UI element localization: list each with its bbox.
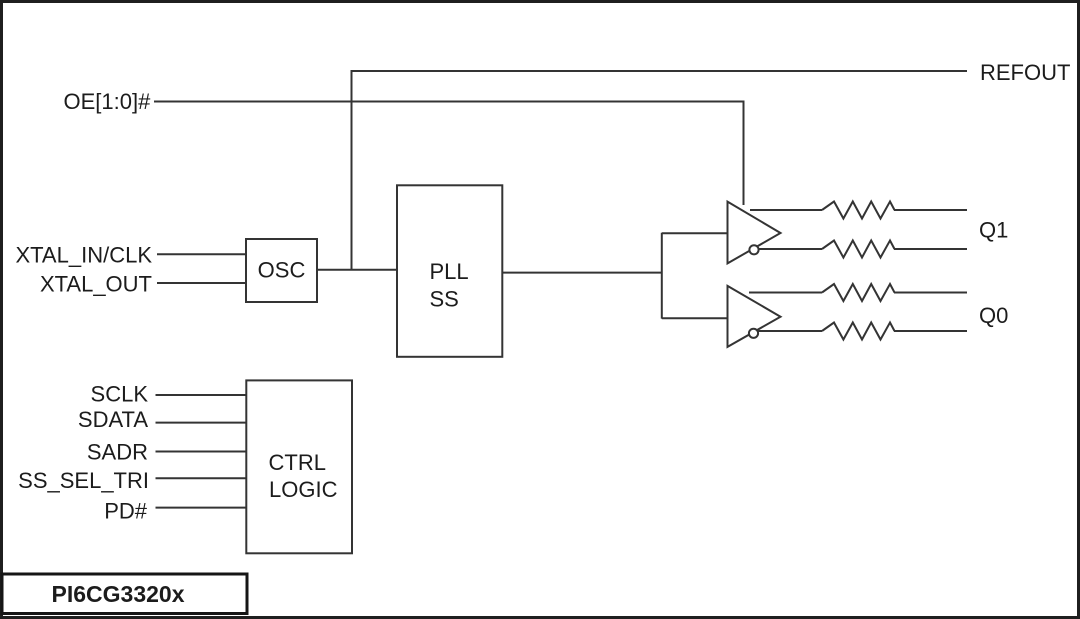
- svg-text:PLL: PLL: [430, 259, 469, 284]
- svg-text:LOGIC: LOGIC: [269, 477, 338, 502]
- svg-text:OSC: OSC: [258, 257, 306, 282]
- svg-text:SDATA: SDATA: [78, 407, 148, 432]
- svg-text:Q1: Q1: [979, 218, 1008, 243]
- svg-text:OE[1:0]#: OE[1:0]#: [64, 89, 152, 114]
- svg-text:SADR: SADR: [87, 440, 148, 465]
- svg-text:PI6CG3320x: PI6CG3320x: [52, 581, 185, 607]
- svg-text:XTAL_OUT: XTAL_OUT: [40, 271, 152, 296]
- svg-text:SS: SS: [430, 287, 459, 312]
- svg-text:SCLK: SCLK: [91, 382, 149, 407]
- svg-text:REFOUT: REFOUT: [980, 60, 1070, 85]
- svg-text:PD#: PD#: [104, 498, 148, 523]
- svg-text:CTRL: CTRL: [269, 450, 326, 475]
- svg-text:SS_SEL_TRI: SS_SEL_TRI: [18, 468, 149, 493]
- svg-text:XTAL_IN/CLK: XTAL_IN/CLK: [15, 242, 152, 267]
- svg-text:Q0: Q0: [979, 303, 1008, 328]
